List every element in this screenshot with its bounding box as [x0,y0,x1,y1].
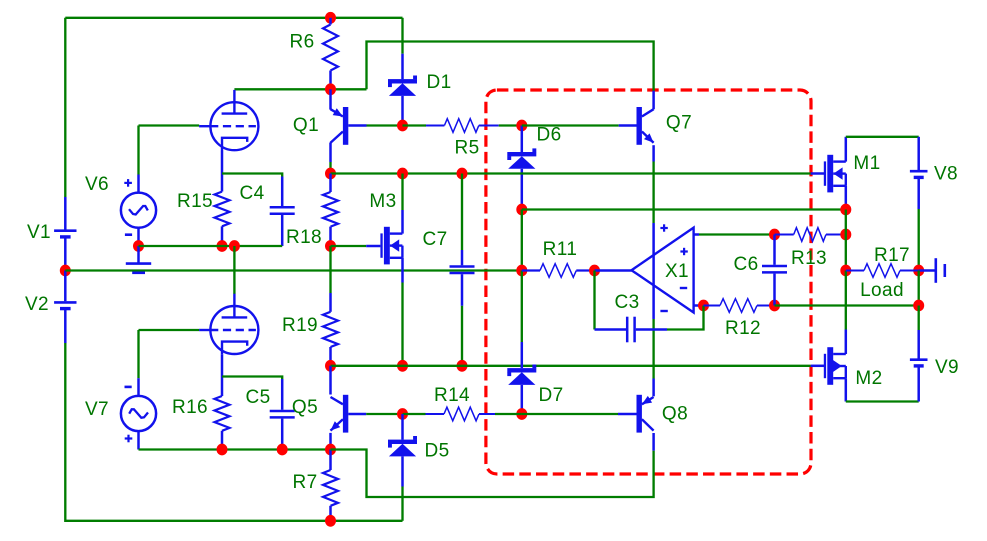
svg-text:X1: X1 [665,261,689,282]
wire C7 bottom to lower rail [461,306,463,366]
wire D7 cathode lead [521,342,524,368]
svg-text:D7: D7 [538,385,563,406]
wire M2 drain lead [845,330,848,355]
wire Q7 base lead [619,124,637,127]
wire M2 gate lead [811,365,824,368]
battery V2 [54,302,76,308]
wire Q1 emitter lead [329,89,332,109]
junction V9 top / feedback rail [913,300,924,312]
label R18 [286,227,322,248]
label D1 [426,72,451,93]
wire R18 node to M3 gate [331,245,367,247]
wire tube anode rail [234,88,366,90]
wire R7 top lead [329,450,332,471]
wire D1 cathode lead [401,54,404,79]
wire R17 node down to M2 drain [845,271,847,330]
wire M3 drain wire [401,174,403,211]
wire C6 top lead [773,235,776,265]
label R6 [289,31,314,52]
wire R18 bottom lead [329,227,332,246]
label D6 [536,124,561,145]
svg-text:V9: V9 [935,357,959,378]
wire M3 source lead [401,258,404,283]
svg-text:C5: C5 [245,387,270,408]
junction C6 top / R13 left [769,229,780,241]
wire V7 bottom lead [137,431,140,450]
wire lower gate rail to M2 [331,365,811,367]
junction D6 cathode [516,120,527,132]
wire D7 node to Q8 base [522,413,618,415]
svg-text:M1: M1 [853,153,880,174]
wire Q8 emitter lead [652,379,655,397]
wire Q5 base lead [348,413,366,416]
junction Q1 collector / R18 / gate rail [325,168,336,180]
wire bottom bus rise to D5 [401,487,403,521]
wire D6 node to M1 source [522,208,846,210]
svg-text:D1: D1 [426,72,451,93]
wire Q7 collector lead [652,91,655,110]
resistor R19 [323,312,338,347]
junction C7 top on gate rail [457,168,468,180]
wire C6 bottom lead [773,274,776,306]
capacitor C4 [270,207,295,214]
junction R11 left / zener column [516,265,527,277]
junction R17 right / ground [913,265,924,277]
wire D7 anode lead [521,385,524,414]
wire V8 to R17 node [918,209,920,271]
svg-text:C4: C4 [239,183,264,204]
op-amp X1 [632,223,701,319]
triode upper (left channel) [199,90,258,151]
wire D5 cathode lead [401,414,404,440]
wire V8 top lead [917,137,920,170]
transistor Q7 (NPN) [637,107,654,145]
wire C4 top lead [281,177,284,207]
wire Q1 base to D1 anode [367,124,403,126]
wire D5 anode lead [401,456,404,486]
wire R6 top lead [329,18,332,25]
transistor Q1 (PNP) [331,107,349,145]
junction R11 right / C3 tap [589,265,600,277]
resistor R5 [444,119,478,133]
svg-text:D5: D5 [424,440,449,461]
AC source V6 [121,179,156,235]
wire D6-D7 link upper [521,210,523,271]
wire left rail V1 top [64,18,66,197]
label R12 [725,318,761,339]
wire D6 node to Q7 base [522,124,619,126]
wire V7 to lower triode grid [139,329,200,331]
junction R15 bottom [217,240,228,252]
junction M3 drain on gate rail [397,168,408,180]
resistor R13 [794,228,826,242]
svg-text:Q5: Q5 [292,397,318,418]
junction C7 bottom rail [457,360,468,372]
wire M2 source lead [845,378,848,401]
wire R12 node to V9 column [775,304,919,306]
label C7 [422,229,447,250]
junction R17 left / M2 drain column [840,265,851,277]
wire C5 top lead [281,379,284,410]
junction R6 bottom / Q1 emitter [325,83,336,95]
label C4 [239,183,264,204]
wire R13 right lead [826,234,846,236]
wire V6 bottom lead [137,228,140,246]
wire R14 left wire [403,413,426,415]
svg-text:Q8: Q8 [662,403,688,424]
svg-text:C6: C6 [733,254,758,275]
svg-text:M2: M2 [855,368,882,389]
wire C5 bottom lead [281,419,284,450]
wire V2 bottom to bottom bus [65,343,402,521]
wire M3 source to lower rail [401,283,403,366]
junction R16 bottom [217,444,228,456]
wire top bus drop to D1 [401,18,403,54]
wire M3 drain lead [401,210,404,234]
wire R17 right lead [900,270,919,272]
label Q1 [293,115,319,136]
resistor R7 [323,470,338,506]
wire C4 bottom lead [281,215,284,246]
svg-text:R18: R18 [286,227,322,248]
label V7 [85,399,109,420]
wire Q5 emitter lead [329,433,332,450]
capacitor C5 [270,411,295,417]
wire D1 anode lead [401,96,404,126]
wire V6 ground rail [139,245,283,247]
wire V9 top lead [917,330,920,359]
wire R11 right lead [576,269,594,271]
wire R5 left wire [403,124,427,126]
wire V6 to upper triode grid [139,124,200,126]
label R13 [791,248,827,269]
label Load [860,280,904,301]
label V1 [27,222,51,243]
junction op-amp inverting input / R12 left [698,300,709,312]
resistor R15 [215,192,230,227]
label M1 [853,153,880,174]
label R5 [454,137,479,158]
junction D1 anode / R5 [397,120,408,132]
wire R19 top lead [329,293,332,312]
wire R12 right lead [757,305,775,307]
label C6 [733,254,758,275]
capacitor C6 [762,266,787,272]
svg-text:V7: V7 [85,399,109,420]
label R14 [434,385,470,406]
wire C3 to inverting node [667,306,704,330]
wire V7 top corner [137,330,139,378]
wire lower cathode to C5 [222,377,282,380]
label Q5 [292,397,318,418]
wire D7 cathode wire [521,271,523,343]
svg-text:R6: R6 [289,31,314,52]
wire M1 source to R13 node [845,210,847,235]
zener diode D5 [388,436,417,456]
wire Q1 collector lead [329,143,332,163]
label V6 [85,174,109,195]
wire R12 left lead [704,305,721,307]
wire V7 rail to Q8 collector [331,450,654,498]
zener diode D6 [507,148,536,168]
svg-text:R12: R12 [725,318,761,339]
wire op-amp noninverting input to C6 top [699,233,775,235]
wire R6 bottom lead [329,71,332,90]
label M3 [369,191,396,212]
wire V2 top lead [64,271,67,302]
wire R14 left lead [426,413,445,415]
svg-text:R7: R7 [292,472,317,493]
wire D6 anode lead [521,169,524,205]
junction M1 source [840,204,851,216]
wire M3 gate lead [366,245,380,248]
wire V9 top wire [918,306,920,331]
battery V9 [910,360,928,366]
svg-text:R17: R17 [874,245,910,266]
wire V8 bottom lead [917,178,920,209]
label R7 [292,472,317,493]
label R19 [282,315,318,336]
junction R19 bottom / Q5 collector [325,360,336,372]
wire D6 cathode lead [521,126,524,153]
wire V1 bottom lead [64,238,67,271]
resistor R14 [444,407,479,421]
wire M1 drain to V8 [846,136,919,138]
wire R17 left lead [846,270,864,272]
MOSFET M3 (NMOS) [380,227,402,265]
wire M1 source lead [845,186,848,210]
wire Q7 emitter to op-amp V+ [652,162,654,224]
label V9 [935,357,959,378]
svg-text:V1: V1 [27,222,51,243]
label R15 [177,191,213,212]
wire C7 bottom lead [461,274,464,306]
MOSFET M1 (NMOS) [824,155,846,193]
wire V7 top lead [137,378,140,396]
wire Q8 collector lead [652,433,655,451]
svg-text:M3: M3 [369,191,396,212]
wire lower cathode lead [221,354,224,396]
wire R5 to D6 [499,124,522,126]
svg-text:C3: C3 [614,292,639,313]
wire R13 node to R17 node [845,235,847,271]
svg-text:V2: V2 [25,294,49,315]
wire R19 bottom lead [329,347,332,366]
junction D6 anode / source rail [516,204,527,216]
svg-text:Q7: Q7 [666,112,692,133]
wire V2 bottom lead [64,309,67,343]
label X1 [665,261,689,282]
junction R6 top [325,12,336,24]
dashed boundary box around output stage [486,90,811,474]
resistor R11 [540,264,576,278]
wire C7 top lead [461,250,464,265]
svg-text:R16: R16 [172,397,208,418]
wire Q5 base to R14 [366,413,402,415]
wire lower triode anode link [233,246,235,294]
resistor R16 [215,396,230,431]
wire V6 top corner [137,126,139,175]
junction M3 source on lower rail [397,360,408,372]
resistor R18 [323,192,338,227]
label V8 [934,163,958,184]
capacitor C3 [627,317,634,343]
junction R13 right on M1 source column [840,229,851,241]
wire Q1 collector to gate rail [329,162,331,174]
svg-text:R15: R15 [177,191,213,212]
wire upper cathode lead [221,151,224,192]
wire R14 right lead [479,413,495,415]
svg-text:R13: R13 [791,248,827,269]
wire M1 drain lead [845,137,848,162]
wire Q7 collector link [367,42,654,91]
junction R18 bottom / R19 top / M3 gate [325,240,336,252]
wire V1 top lead [64,197,67,230]
junction V6 minus node [133,240,144,252]
junction V1-V2 midpoint [60,265,71,277]
label D7 [538,385,563,406]
wire Q7 emitter lead [652,145,655,161]
svg-text:R14: R14 [434,385,470,406]
junction tube2 anode tap [229,240,240,252]
resistor R6 [323,25,338,71]
wire R5 left lead [426,125,444,127]
triode lower (left channel) [199,294,258,355]
wire Q1 base lead [348,124,366,127]
svg-text:Q1: Q1 [293,115,319,136]
resistor R12 [720,299,757,313]
MOSFET M2 (PMOS) [824,347,846,385]
wire Q8 base lead [618,413,637,416]
wire C3 left riser [593,271,595,330]
svg-text:V6: V6 [85,174,109,195]
junction D5 cathode / R14 [397,408,408,420]
wire R16 bottom lead [221,431,224,450]
svg-text:R5: R5 [454,137,479,158]
wire long gate rail to M1 [331,172,811,174]
wire R11 left lead [522,269,540,271]
wire M1 gate lead [811,172,824,175]
wire V9 bottom lead [917,367,920,402]
ground at load [919,258,945,283]
wire Q5 collector lead [329,366,332,395]
junction D7 anode / Q5 base rail [516,408,527,420]
svg-text:Load: Load [860,280,904,301]
label Q7 [666,112,692,133]
wire M2 source to V9 [846,400,919,402]
label R11 [543,239,578,260]
label C3 [614,292,639,313]
battery V1 [54,231,76,237]
junction R7 bottom on bottom bus [325,515,336,527]
wire V+ top bus [65,17,402,19]
svg-text:R19: R19 [282,315,318,336]
wire upper cathode to C4 [222,174,282,177]
label R17 [874,245,910,266]
wire C7 top wire [461,174,463,251]
svg-text:V8: V8 [934,163,958,184]
svg-text:R11: R11 [543,239,578,260]
wire Q8 emitter to op-amp V- [652,319,654,379]
resistor R17 (Load) [864,264,900,278]
AC source V7 [121,387,156,442]
transistor Q5 (NPN) [331,395,349,433]
wire V7 bottom rail [139,448,331,450]
label D5 [424,440,449,461]
wire R5 right lead [479,125,499,127]
junction C6 bottom / R12 right [769,300,780,312]
wire V6 top lead [137,175,140,193]
wire C3 left lead [595,328,627,331]
junction C5 bottom [277,444,288,456]
wire R13 left lead [775,234,794,236]
wire R11 to op-amp output [595,269,632,272]
wire R14 to D7 node [495,413,522,415]
wire R15 bottom lead [221,226,224,246]
battery V8 [910,171,928,177]
svg-text:D6: D6 [536,124,561,145]
ground below V6 [126,246,151,273]
zener diode D1 [388,76,417,96]
wire mid rail from V1-V2 midpoint to R11 [65,269,522,271]
label M2 [855,368,882,389]
label V2 [25,294,49,315]
label R16 [172,397,208,418]
wire C3 right lead [636,328,667,331]
wire R7 bottom lead [329,506,332,521]
svg-text:C7: C7 [422,229,447,250]
wire R18 top lead [329,174,332,193]
transistor Q8 (PNP) [637,395,654,433]
wire V8 minus to R12 rail [918,271,920,306]
junction Q5 emitter on V7 rail [325,444,336,456]
capacitor C7 [450,267,475,274]
zener diode D7 [507,365,536,385]
label Q8 [662,403,688,424]
label C5 [245,387,270,408]
wire R18-R19 link [329,246,331,293]
